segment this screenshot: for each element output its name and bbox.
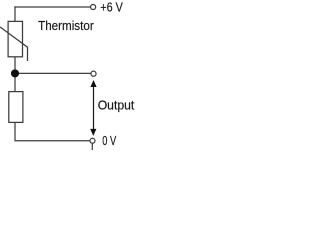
svg-text:Output: Output [98,97,135,112]
terminal output top [91,71,96,76]
output arrow shaft [93,85,95,133]
thermistor RT body [8,21,22,56]
wire vertical from top rail down to thermistor [14,6,16,21]
svg-text:+6 V: +6 V [100,0,123,14]
svg-text:Thermistor: Thermistor [38,18,94,33]
resistor R body [9,92,23,123]
wire rail thermistor to junction [14,57,16,71]
svg-text:0 V: 0 V [102,133,116,148]
wire rail junction to resistor [14,77,16,92]
terminal 0V [90,138,95,143]
output arrowhead down [90,129,96,136]
output arrowhead up [90,80,96,87]
terminal +6V [91,4,96,9]
thermistor diagonal stroke [0,27,28,61]
wire top horizontal to +6V terminal [14,6,90,8]
wire rail resistor to 0V with corner [15,123,90,141]
wire middle horizontal from junction to output terminal [18,72,92,74]
wire stub below 0V terminal [91,143,93,150]
junction node dot [11,69,19,77]
